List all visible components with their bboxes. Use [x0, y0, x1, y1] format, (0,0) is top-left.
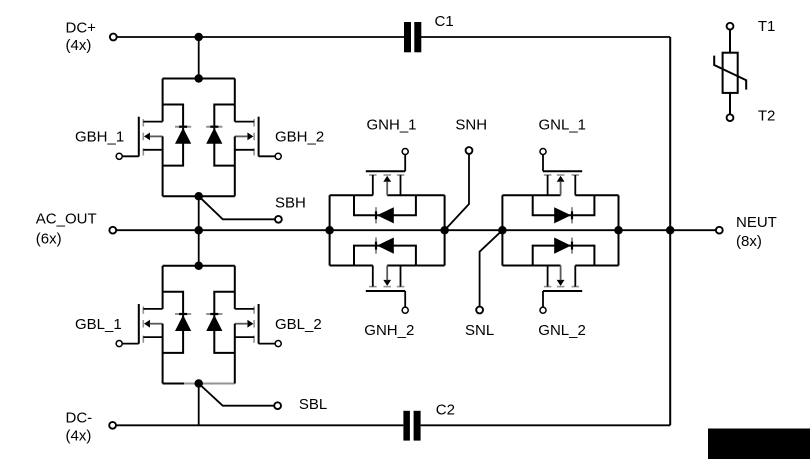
transistor GBH_2	[235, 79, 275, 197]
terminal SBL	[274, 402, 281, 409]
terminal SNL	[476, 307, 483, 314]
transistor GNL_1	[543, 155, 582, 196]
body diode of GNL_1	[533, 195, 595, 223]
wire GNL left rail	[501, 195, 503, 265]
transistor GBL_1	[123, 266, 163, 384]
wire GNL bottom edge	[502, 265, 560, 267]
wire GBL bottom rail	[163, 383, 184, 385]
gate terminal GBH_1	[116, 153, 122, 159]
svg-text:GNL_2: GNL_2	[538, 322, 586, 339]
svg-text:(4x): (4x)	[66, 37, 92, 54]
wire AC_OUT to GBL block	[198, 230, 200, 266]
wire GNL right rail	[618, 195, 620, 265]
terminal SBH	[275, 216, 282, 223]
capacitor C2	[403, 411, 420, 441]
capacitor C1	[404, 22, 421, 52]
wire GBL bottom rail (gray part)	[184, 383, 235, 385]
svg-text:SBL: SBL	[299, 396, 327, 413]
svg-text:GNH_2: GNH_2	[364, 322, 414, 339]
node GBH drain	[194, 74, 203, 83]
terminal DC-	[109, 422, 116, 429]
node GNL left	[498, 226, 507, 235]
gate terminal GBH_2	[275, 153, 281, 159]
wire GBL source to DC-	[198, 384, 200, 426]
svg-text:(8x): (8x)	[736, 233, 762, 250]
svg-text:GBL_1: GBL_1	[75, 316, 122, 333]
svg-text:DC-: DC-	[66, 409, 93, 426]
terminal DC+	[110, 34, 117, 41]
gate terminal GNH_2	[402, 307, 408, 313]
svg-text:DC+: DC+	[66, 19, 97, 36]
node AC_OUT junction	[194, 226, 203, 235]
svg-text:NEUT: NEUT	[736, 214, 777, 231]
wire DC+ to GBH block	[198, 37, 200, 79]
wire SBL	[199, 384, 275, 406]
svg-text:SNL: SNL	[465, 322, 494, 339]
varistor diagonal	[714, 56, 746, 90]
svg-text:T2: T2	[758, 107, 776, 124]
node GNH left	[325, 226, 334, 235]
svg-text:(6x): (6x)	[36, 230, 62, 247]
wire DC+ rail	[117, 36, 405, 38]
terminal SNH	[466, 147, 473, 154]
body diode of GBH_2	[206, 105, 235, 166]
wire GBH source to AC_OUT	[198, 196, 200, 230]
wire SNH	[445, 154, 469, 230]
terminal NEUT	[716, 227, 723, 234]
gate terminal GBL_1	[116, 341, 122, 347]
transistor GNH_2	[366, 266, 405, 307]
body diode of GBH_1	[163, 105, 192, 166]
svg-text:GNL_1: GNL_1	[539, 117, 587, 134]
body diode of GNL_2	[533, 238, 595, 266]
node GNL right	[614, 226, 623, 235]
node GNH right	[440, 226, 449, 235]
wire right bus NEUT	[669, 37, 671, 425]
node NEUT bus junction	[666, 226, 675, 235]
node DC+ junction	[194, 33, 203, 42]
transistor GBH_1	[123, 79, 163, 197]
black masking box bottom-right	[708, 429, 810, 460]
transistor GBL_2	[235, 266, 275, 384]
wire GNH bottom edge	[330, 265, 373, 267]
svg-text:C2: C2	[436, 401, 455, 418]
svg-text:GBH_1: GBH_1	[75, 129, 124, 146]
gate terminal GNL_1	[540, 148, 546, 154]
svg-text:GBL_2: GBL_2	[275, 316, 322, 333]
gate terminal GNL_2	[540, 307, 546, 313]
wire T2 lead	[729, 93, 731, 114]
svg-text:T1: T1	[758, 18, 776, 35]
wire GBL top rail	[163, 265, 235, 267]
svg-text:SNH: SNH	[455, 117, 487, 134]
body diode of GBL_1	[163, 292, 192, 353]
transistor GNH_1	[366, 155, 405, 196]
svg-text:SBH: SBH	[275, 194, 306, 211]
wire T1 lead	[729, 30, 731, 53]
wire GNH left rail	[329, 195, 331, 265]
body diode of GNH_1	[354, 195, 416, 223]
body diode of GBL_2	[206, 292, 235, 353]
svg-text:GBH_2: GBH_2	[275, 129, 324, 146]
gate terminal GBL_2	[275, 341, 281, 347]
wire GBH bottom rail	[163, 195, 235, 197]
terminal T2	[727, 114, 734, 121]
node GBL drain	[194, 262, 203, 271]
wire GBH top rail	[163, 78, 235, 80]
svg-text:C1: C1	[435, 13, 454, 30]
wire GNH right rail	[444, 195, 446, 265]
body diode of GNH_2	[354, 238, 416, 266]
varistor body	[723, 53, 738, 93]
node GBL source	[194, 379, 203, 388]
wire AC_OUT rail	[116, 229, 716, 231]
wire SBH	[199, 196, 275, 219]
svg-text:GNH_1: GNH_1	[367, 117, 417, 134]
wire SNL	[480, 230, 503, 306]
node GBH source	[194, 192, 203, 201]
svg-text:AC_OUT: AC_OUT	[36, 211, 97, 228]
wire GNH top edge	[330, 194, 373, 196]
wire GNL top edge	[502, 194, 560, 196]
terminal T1	[727, 23, 734, 30]
terminal AC_OUT	[109, 227, 116, 234]
svg-text:(4x): (4x)	[66, 428, 92, 445]
wire DC- rail	[116, 424, 403, 426]
gate terminal GNH_1	[402, 148, 408, 154]
transistor GNL_2	[543, 266, 582, 307]
